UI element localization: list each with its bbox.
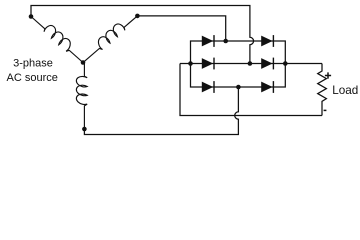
svg-text:AC source: AC source — [7, 72, 58, 84]
diode row 2 col 1 (triangle anode left, cathode bar right) — [202, 58, 213, 69]
diode row 3 col 1 (triangle anode left, cathode bar right) — [202, 82, 213, 93]
wire: phase C from bottom coil down, along bottom, up to bridge row-3 node (hops over negative rail) — [84, 87, 238, 135]
node: wye neutral dot — [81, 60, 86, 65]
node: phase A / row 2 junction — [248, 61, 253, 66]
node: source terminal B dot — [135, 14, 140, 19]
wire: bridge outer loop (row 1 top, right bus, row 3 bottom, left bus) — [191, 41, 286, 87]
svg-text:Load: Load — [332, 84, 358, 97]
label: - polarity at load bottom — [324, 109, 327, 111]
node: phase B / row 1 junction — [223, 39, 228, 44]
node: phase C / row 3 junction — [236, 85, 241, 90]
diode row 1 col 2 (triangle anode left, cathode bar right) — [261, 36, 272, 47]
circuit: 3-phase AC source (wye) feeding 6-diode full-wave bridge rectifier with load — [0, 0, 360, 140]
inductor: wye winding A (upper-left coil) — [29, 11, 88, 65]
wire: bridge row 2 horizontal rail from left stub through buses to load + lead — [180, 63, 322, 65]
diode row 3 col 2 (triangle anode left, cathode bar right) — [261, 82, 272, 93]
svg-text:3-phase: 3-phase — [13, 58, 53, 70]
wire: phase B from source terminal B right, down to bridge row-1 node — [137, 16, 225, 41]
diode row 2 col 2 (triangle anode left, cathode bar right) — [261, 58, 272, 69]
node: source terminal A dot — [29, 14, 34, 19]
node: right bus / row 2 junction — [283, 61, 288, 66]
node: left bus / row 2 junction — [188, 61, 193, 66]
wire: negative rail, down from row-2 left stub and across to load bottom — [180, 64, 322, 116]
resistor: Load (zigzag) with top and bottom leads — [318, 64, 327, 116]
inductor: wye winding B (upper-right coil) — [78, 10, 139, 64]
label: + polarity at load top — [325, 72, 331, 78]
wire: phase A from source terminal A up, across top, down to bridge row-2 node (hops over row 1) — [31, 6, 254, 64]
inductor: wye winding C (bottom coil) — [83, 62, 84, 65]
node: source terminal C dot — [82, 127, 87, 132]
diode row 1 col 1 (triangle anode left, cathode bar right) — [202, 36, 213, 47]
